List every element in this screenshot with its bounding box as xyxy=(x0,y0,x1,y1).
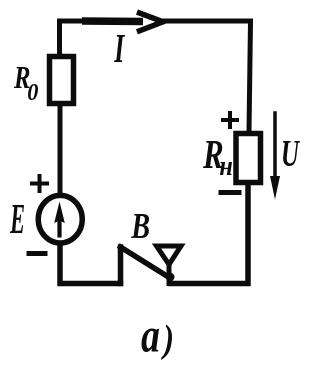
minus sign of E xyxy=(29,251,45,256)
label a closing paren xyxy=(161,325,172,361)
label RN xyxy=(203,141,222,168)
plus sign of RN xyxy=(223,113,237,127)
label U xyxy=(283,141,300,166)
voltage arrow U xyxy=(270,113,280,200)
label RN subscript n xyxy=(220,162,232,175)
wire right lower xyxy=(171,185,248,284)
label I xyxy=(114,35,125,62)
resistor R0 xyxy=(50,57,74,104)
label E xyxy=(10,205,24,233)
label B (switch) xyxy=(131,214,149,238)
wire top xyxy=(60,21,251,131)
wire left lower xyxy=(60,245,121,284)
plus sign of E xyxy=(32,176,47,191)
label R0 xyxy=(14,67,30,88)
source E xyxy=(38,195,82,243)
minus sign of RN xyxy=(221,190,239,195)
switch B xyxy=(121,246,182,284)
resistor RN xyxy=(236,134,261,183)
label R0 subscript 0 xyxy=(28,84,38,100)
label a xyxy=(142,328,159,352)
wire resistor R0 to source E xyxy=(58,106,63,196)
current arrow I xyxy=(82,13,163,31)
